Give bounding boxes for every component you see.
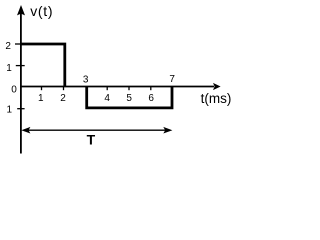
svg-text:1: 1: [38, 93, 44, 104]
svg-text:7: 7: [169, 74, 175, 85]
svg-text:1: 1: [7, 104, 13, 115]
svg-text:t(ms): t(ms): [201, 91, 232, 106]
svg-text:2: 2: [5, 41, 11, 52]
svg-text:2: 2: [60, 93, 66, 104]
svg-text:0: 0: [11, 84, 17, 95]
svg-text:3: 3: [83, 75, 89, 86]
svg-text:1: 1: [6, 63, 12, 74]
svg-text:v(t): v(t): [30, 3, 53, 19]
svg-text:6: 6: [148, 93, 154, 104]
svg-text:T: T: [87, 132, 96, 148]
svg-text:4: 4: [104, 93, 110, 104]
svg-text:5: 5: [126, 93, 132, 104]
